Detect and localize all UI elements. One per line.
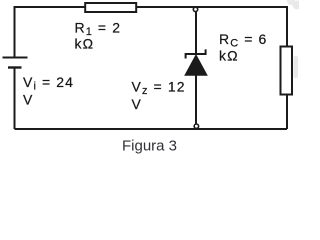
node A: top junction terminal circle xyxy=(193,7,197,11)
zener diode DZ cathode bar with bent ends xyxy=(186,49,206,58)
wire: zener branch upper xyxy=(195,12,197,54)
svg-text:V: V xyxy=(23,91,33,107)
wire: bottom return branch xyxy=(15,128,288,130)
scan smudge top-right xyxy=(287,0,302,10)
wire: zener branch lower xyxy=(195,75,197,124)
label RC = 6 kOhm xyxy=(219,31,267,64)
svg-text:kΩ: kΩ xyxy=(219,48,239,64)
wire: top branch from R1 to top-right corner and down to RC xyxy=(137,7,288,46)
wire: left branch upper (battery + to top-left corner to R1) xyxy=(15,7,86,57)
resistor R1 xyxy=(85,3,136,12)
wire: left branch lower (battery - down to bottom-left corner) xyxy=(14,68,16,130)
battery Vi positive plate xyxy=(3,57,28,59)
svg-text:Vz = 12: Vz = 12 xyxy=(132,79,186,98)
node B: bottom junction terminal circle xyxy=(194,124,198,128)
svg-text:Vi = 24: Vi = 24 xyxy=(23,74,74,93)
resistor RC xyxy=(281,47,293,95)
zener diode DZ anode triangle xyxy=(185,55,207,75)
wire: right branch lower (RC to bottom-right corner) xyxy=(286,95,288,129)
battery Vi negative plate xyxy=(8,66,22,68)
label R1 = 2 kOhm xyxy=(75,19,122,51)
label Vi = 24 V xyxy=(23,74,74,107)
label Vz = 12 V xyxy=(132,79,186,113)
svg-text:Figura 3: Figura 3 xyxy=(122,137,177,154)
svg-text:V: V xyxy=(132,96,142,112)
svg-text:kΩ: kΩ xyxy=(75,36,95,52)
scan smudge right of RC xyxy=(294,56,299,78)
